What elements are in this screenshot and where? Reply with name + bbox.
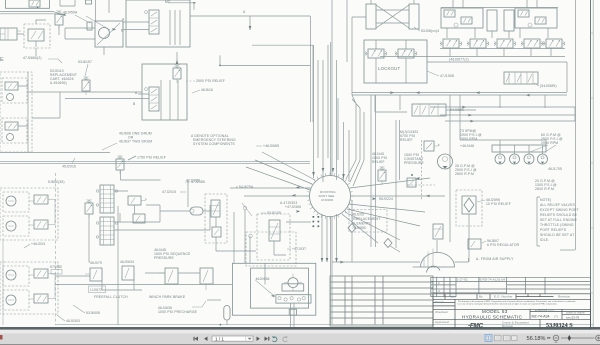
svg-text:RELIEF: RELIEF (372, 160, 385, 164)
svg-text:55J0224: 55J0224 (379, 197, 393, 201)
svg-text:46J0636: 46J0636 (256, 277, 270, 281)
svg-text:Drawn: Drawn (435, 300, 444, 304)
svg-text:56.18%: 56.18% (527, 336, 546, 342)
svg-text:46J0634: 46J0634 (120, 260, 134, 264)
svg-text:76J0550: 76J0550 (352, 226, 366, 230)
svg-text:MC: MC (165, 0, 171, 4)
svg-text:47J2015: 47J2015 (162, 190, 176, 194)
svg-text:8: 8 (432, 285, 434, 289)
svg-text:+47J0306: +47J0306 (285, 205, 301, 209)
svg-text:2800 RPM: 2800 RPM (460, 137, 477, 141)
svg-text:MZ-74-A34: MZ-74-A34 (532, 315, 550, 319)
svg-text:6 PSI REGULATOR: 6 PSI REGULATOR (487, 243, 520, 247)
svg-text:& 45J696): & 45J696) (50, 81, 67, 85)
svg-text:53J6105: 53J6105 (267, 211, 281, 215)
svg-text:RELIEF: RELIEF (400, 138, 413, 142)
svg-text:EXCEPT SWING PORT: EXCEPT SWING PORT (540, 208, 579, 212)
svg-text:47J0665(2): 47J0665(2) (23, 56, 42, 60)
svg-text:PRESSURE: PRESSURE (404, 161, 424, 165)
svg-text:ELEMENT): ELEMENT) (352, 222, 370, 226)
svg-text:xxx-23-76: xxx-23-76 (566, 315, 580, 319)
svg-text:Effective P/N: Effective P/N (535, 308, 554, 312)
svg-text:Date of issue: Date of issue (566, 311, 585, 315)
svg-text:(REPLACEMENT: (REPLACEMENT (352, 217, 380, 221)
svg-text:Checked: Checked (435, 310, 448, 314)
svg-text:53J08(xx)4: 53J08(xx)4 (421, 29, 439, 33)
svg-text:+47J037: +47J037 (292, 247, 306, 251)
svg-text:Revision: Revision (558, 295, 571, 299)
svg-text:WINCH PARK BRAKE: WINCH PARK BRAKE (149, 295, 186, 299)
svg-text:46J059A: 46J059A (63, 11, 78, 15)
svg-text:Approved: Approved (435, 320, 449, 324)
svg-text:2: 2 (438, 281, 440, 285)
svg-text:(46J0677(J): (46J0677(J) (449, 58, 469, 62)
svg-text:FREEFALL CLUTCH: FREEFALL CLUTCH (94, 295, 128, 299)
svg-text:PORT RELIEFS: PORT RELIEFS (540, 228, 567, 232)
svg-text:IDLE.: IDLE. (540, 238, 549, 242)
svg-text:NOTE(: NOTE( (540, 198, 552, 202)
svg-text:SET AT FULL ENGINE: SET AT FULL ENGINE (540, 218, 578, 222)
svg-text:date: date (450, 295, 456, 299)
svg-text:RELIEFS SHOULD BE: RELIEFS SHOULD BE (540, 213, 578, 217)
svg-text:2800 R.P.M.: 2800 R.P.M. (535, 187, 555, 191)
svg-text:53J0324 S: 53J0324 S (546, 322, 573, 329)
svg-text:47J1508: 47J1508 (440, 74, 454, 78)
svg-text:570080: 570080 (50, 265, 62, 269)
svg-text:10 PSI RELIEF: 10 PSI RELIEF (486, 202, 511, 206)
svg-text:This drawing is the property o: This drawing is the property of FMC Corp… (458, 300, 577, 303)
svg-text:+46J0655: +46J0655 (263, 144, 279, 148)
svg-text:5J800(35): 5J800(35) (48, 180, 65, 184)
svg-text:45J2016: 45J2016 (62, 165, 76, 169)
svg-text:1-17-92: 1-17-92 (457, 278, 468, 282)
svg-text:L10672: L10672 (90, 288, 102, 292)
svg-text:1000 PSI PRECHARGE: 1000 PSI PRECHARGE (158, 310, 198, 314)
svg-text:4: 4 (438, 289, 440, 293)
svg-text:46J0303: 46J0303 (66, 319, 80, 323)
svg-text:LOCKOUT: LOCKOUT (378, 66, 400, 71)
svg-text:HYDRAULIC SCHEMATIC: HYDRAULIC SCHEMATIC (462, 314, 523, 319)
svg-text:SHOULD BE SET AT: SHOULD BE SET AT (540, 233, 574, 237)
svg-text:to or use of same and upon dem: to or use of same and upon demand shall … (458, 303, 558, 306)
svg-text:THROTTLE.(SWING: THROTTLE.(SWING (540, 223, 574, 227)
svg-text:2800 R.P.M: 2800 R.P.M (455, 172, 474, 176)
svg-text:PRESSURE: PRESSURE (154, 256, 174, 260)
svg-text:SYSTEM COMPONENTS: SYSTEM COMPONENTS (193, 142, 235, 146)
svg-text:46J616: 46J616 (201, 88, 213, 92)
svg-text:By: By (479, 295, 483, 299)
svg-text:-FMC: -FMC (468, 322, 483, 329)
svg-text:E: E (0, 57, 4, 63)
svg-text:2500 PSI RELIEF: 2500 PSI RELIEF (196, 79, 225, 83)
svg-text:+46J003: +46J003 (31, 242, 45, 246)
svg-text:46J1705: 46J1705 (548, 167, 562, 171)
svg-text:E.O. Number: E.O. Number (494, 295, 513, 299)
svg-text:+46J446: +46J446 (460, 144, 474, 148)
svg-text:1750 PSI RELIEF: 1750 PSI RELIEF (137, 156, 166, 160)
svg-text:(54J0589): (54J0589) (540, 84, 557, 88)
svg-text:2000 RPM: 2000 RPM (541, 141, 558, 145)
svg-text:1 / 1: 1 / 1 (215, 336, 224, 341)
svg-text:(7): (7) (554, 314, 558, 318)
svg-text:46J205: 46J205 (352, 213, 364, 217)
svg-text:ALL RELIEF VALVES: ALL RELIEF VALVES (540, 203, 575, 207)
svg-text:Division: Division (502, 324, 514, 328)
svg-text:46J637 TWO DRUM: 46J637 TWO DRUM (119, 140, 152, 144)
svg-text:47J2085: 47J2085 (191, 180, 205, 184)
svg-text:53J6005: 53J6005 (86, 311, 100, 315)
svg-text:c 54J679A: c 54J679A (236, 185, 254, 189)
svg-text:47J0306: 47J0306 (321, 198, 333, 202)
svg-text:A- FROM AIR SUPPLY: A- FROM AIR SUPPLY (476, 257, 514, 261)
svg-text:B RD-74-A(J)1-04: B RD-74-A(J)1-04 (480, 278, 506, 282)
svg-text:53J6157: 53J6157 (78, 60, 92, 64)
svg-text:46J079: 46J079 (90, 261, 102, 265)
svg-text:46J606 ONE DRUM: 46J606 ONE DRUM (119, 132, 152, 136)
